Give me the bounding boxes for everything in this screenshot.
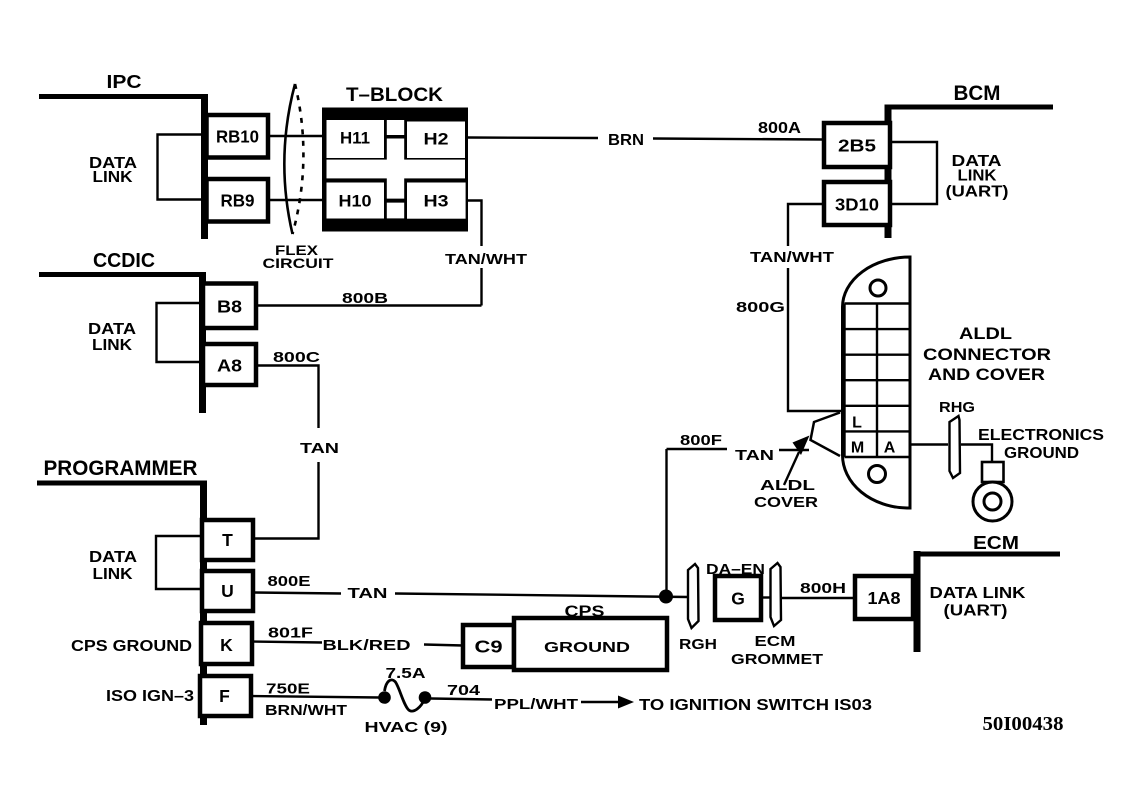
ECM data link label bbox=[930, 585, 1027, 620]
svg-text:G: G bbox=[731, 589, 745, 609]
svg-text:TAN/WHT: TAN/WHT bbox=[750, 249, 834, 266]
pin U bbox=[202, 571, 253, 611]
wire 800F TAN to ALDL cover bbox=[667, 432, 810, 593]
svg-text:(UART): (UART) bbox=[946, 184, 1009, 201]
svg-text:800C: 800C bbox=[273, 349, 320, 366]
pin RB10 bbox=[207, 115, 269, 158]
svg-text:TAN: TAN bbox=[348, 585, 388, 602]
svg-text:K: K bbox=[220, 635, 233, 655]
wire BRN 800A from H2 to 2B5 bbox=[468, 120, 824, 149]
svg-text:M: M bbox=[851, 440, 864, 457]
connector ALDL outline bbox=[842, 257, 910, 508]
connector RHG bbox=[939, 399, 975, 478]
terminal IPC bus bar bbox=[39, 94, 207, 239]
svg-text:RB9: RB9 bbox=[221, 191, 255, 211]
wire RB9 to H10 bbox=[268, 199, 326, 201]
svg-text:GROUND: GROUND bbox=[1004, 445, 1079, 462]
svg-text:COVER: COVER bbox=[754, 494, 818, 511]
wire 800B from B8 to TAN/WHT bbox=[256, 290, 482, 307]
ALDL top mounting hole bbox=[870, 280, 886, 296]
svg-text:800G: 800G bbox=[736, 299, 785, 316]
svg-text:3D10: 3D10 bbox=[835, 195, 879, 215]
svg-text:800A: 800A bbox=[758, 120, 802, 137]
svg-text:ALDL: ALDL bbox=[760, 477, 815, 494]
svg-text:704: 704 bbox=[447, 682, 481, 699]
wire TAN/WHT 800G from 3D10 to ALDL pin L bbox=[736, 204, 844, 411]
svg-text:HVAC (9): HVAC (9) bbox=[365, 719, 448, 736]
wire ALDL pin A to electronics ground bbox=[910, 443, 948, 445]
pin 3D10 bbox=[824, 182, 890, 225]
svg-text:IPC: IPC bbox=[107, 72, 142, 92]
grommet DA-EN pin G bbox=[706, 561, 765, 620]
BCM data link bracket bbox=[891, 142, 1009, 204]
svg-text:LINK: LINK bbox=[93, 169, 133, 186]
svg-text:LINK: LINK bbox=[93, 566, 133, 583]
svg-text:H11: H11 bbox=[340, 129, 370, 148]
svg-text:2B5: 2B5 bbox=[838, 136, 876, 156]
wire 704 PPL/WHT bbox=[431, 682, 872, 714]
svg-text:RGH: RGH bbox=[679, 636, 717, 653]
svg-text:L: L bbox=[852, 415, 862, 432]
svg-text:800F: 800F bbox=[680, 432, 722, 449]
svg-text:LINK: LINK bbox=[92, 337, 132, 354]
svg-text:800H: 800H bbox=[800, 580, 846, 597]
svg-text:DATA: DATA bbox=[89, 549, 138, 566]
svg-text:TAN/WHT: TAN/WHT bbox=[445, 251, 527, 268]
pin C9 bbox=[463, 625, 514, 667]
connector ECM grommet blade bbox=[731, 563, 823, 668]
pin 1A8 bbox=[855, 576, 913, 619]
svg-text:800B: 800B bbox=[342, 290, 388, 307]
wire TAN/WHT from H3 bbox=[445, 201, 527, 306]
fuse 7.5A HVAC (9) bbox=[365, 665, 448, 736]
svg-text:CCDIC: CCDIC bbox=[93, 250, 155, 272]
svg-text:GROUND: GROUND bbox=[544, 639, 630, 656]
svg-text:PPL/WHT: PPL/WHT bbox=[494, 696, 578, 713]
svg-text:AND COVER: AND COVER bbox=[928, 365, 1045, 384]
wire 800C TAN from A8 to T bbox=[253, 349, 339, 539]
CPS ground box bbox=[514, 604, 667, 671]
svg-text:TO IGNITION SWITCH IS03: TO IGNITION SWITCH IS03 bbox=[639, 697, 872, 714]
svg-text:DATA: DATA bbox=[88, 321, 137, 338]
pin F bbox=[200, 676, 251, 716]
svg-text:BRN: BRN bbox=[608, 132, 644, 149]
svg-text:7.5A: 7.5A bbox=[386, 665, 426, 682]
svg-text:BCM: BCM bbox=[954, 82, 1001, 105]
PROGRAMMER data link bracket bbox=[89, 536, 201, 589]
ALDL pin grid bbox=[845, 304, 911, 458]
svg-text:PROGRAMMER: PROGRAMMER bbox=[44, 457, 198, 480]
terminal CCDIC bus bar bbox=[39, 272, 205, 413]
svg-text:A8: A8 bbox=[217, 356, 242, 376]
svg-text:TAN: TAN bbox=[300, 440, 339, 457]
terminal BCM bus bar bbox=[888, 105, 1053, 239]
wire 750E BRN/WHT from F bbox=[251, 681, 379, 720]
svg-text:RB10: RB10 bbox=[216, 127, 259, 147]
svg-text:ELECTRONICS: ELECTRONICS bbox=[978, 427, 1104, 444]
svg-text:801F: 801F bbox=[268, 625, 313, 642]
svg-text:F: F bbox=[219, 686, 230, 706]
svg-text:TAN: TAN bbox=[735, 447, 774, 464]
svg-text:DATA LINK: DATA LINK bbox=[930, 585, 1027, 602]
pin A8 bbox=[203, 344, 256, 385]
svg-text:800E: 800E bbox=[268, 573, 311, 590]
svg-text:H3: H3 bbox=[424, 192, 449, 211]
svg-text:LINK: LINK bbox=[958, 168, 997, 185]
svg-text:ALDL: ALDL bbox=[959, 324, 1012, 343]
svg-text:B8: B8 bbox=[217, 297, 242, 317]
svg-text:1A8: 1A8 bbox=[868, 588, 901, 608]
ALDL cover flap bbox=[811, 413, 841, 457]
svg-text:BLK/RED: BLK/RED bbox=[323, 637, 411, 654]
svg-text:T–BLOCK: T–BLOCK bbox=[346, 85, 443, 106]
svg-text:50I00438: 50I00438 bbox=[983, 713, 1064, 735]
svg-text:A: A bbox=[884, 440, 896, 457]
wire RB10 to H11 bbox=[268, 135, 326, 137]
svg-text:CIRCUIT: CIRCUIT bbox=[263, 255, 335, 271]
connector RGH grommet blade bbox=[679, 564, 717, 653]
svg-text:U: U bbox=[221, 581, 234, 601]
wire 801F BLK/RED from K to C9 bbox=[252, 625, 463, 655]
IPC data link bracket bbox=[89, 135, 203, 200]
svg-text:H10: H10 bbox=[339, 192, 372, 211]
terminal PROGRAMMER bus bar bbox=[37, 481, 205, 726]
flex circuit connector bbox=[263, 84, 335, 271]
svg-text:ECM: ECM bbox=[755, 633, 796, 650]
pin K bbox=[201, 623, 252, 664]
CCDIC data link bracket bbox=[88, 303, 201, 362]
electronics ground bbox=[961, 427, 1104, 521]
svg-text:GROMMET: GROMMET bbox=[731, 651, 823, 668]
svg-text:CONNECTOR: CONNECTOR bbox=[923, 345, 1051, 364]
svg-text:RHG: RHG bbox=[939, 399, 975, 416]
svg-text:ISO IGN–3: ISO IGN–3 bbox=[106, 688, 194, 705]
pin 2B5 bbox=[824, 123, 890, 167]
connector T-BLOCK bbox=[322, 85, 468, 232]
svg-text:H2: H2 bbox=[424, 130, 449, 149]
ALDL connector label bbox=[923, 324, 1051, 384]
ALDL bottom mounting hole bbox=[869, 466, 886, 483]
wire G to ECM grommet bbox=[761, 596, 770, 598]
svg-text:(UART): (UART) bbox=[944, 603, 1008, 620]
wire 800H to 1A8 bbox=[781, 580, 855, 598]
svg-text:750E: 750E bbox=[266, 681, 310, 698]
pin RB9 bbox=[207, 179, 269, 222]
wire 800E TAN from U bbox=[253, 573, 688, 602]
terminal ECM bus bar bbox=[917, 551, 1060, 652]
svg-text:ECM: ECM bbox=[973, 533, 1019, 553]
svg-text:C9: C9 bbox=[475, 637, 503, 657]
ALDL cover label and arrow bbox=[754, 436, 818, 512]
pin B8 bbox=[203, 284, 256, 329]
svg-text:T: T bbox=[222, 530, 233, 550]
pin T bbox=[202, 520, 253, 560]
svg-text:BRN/WHT: BRN/WHT bbox=[265, 702, 347, 719]
svg-text:CPS GROUND: CPS GROUND bbox=[71, 638, 192, 655]
junction node 800F bbox=[659, 590, 673, 604]
